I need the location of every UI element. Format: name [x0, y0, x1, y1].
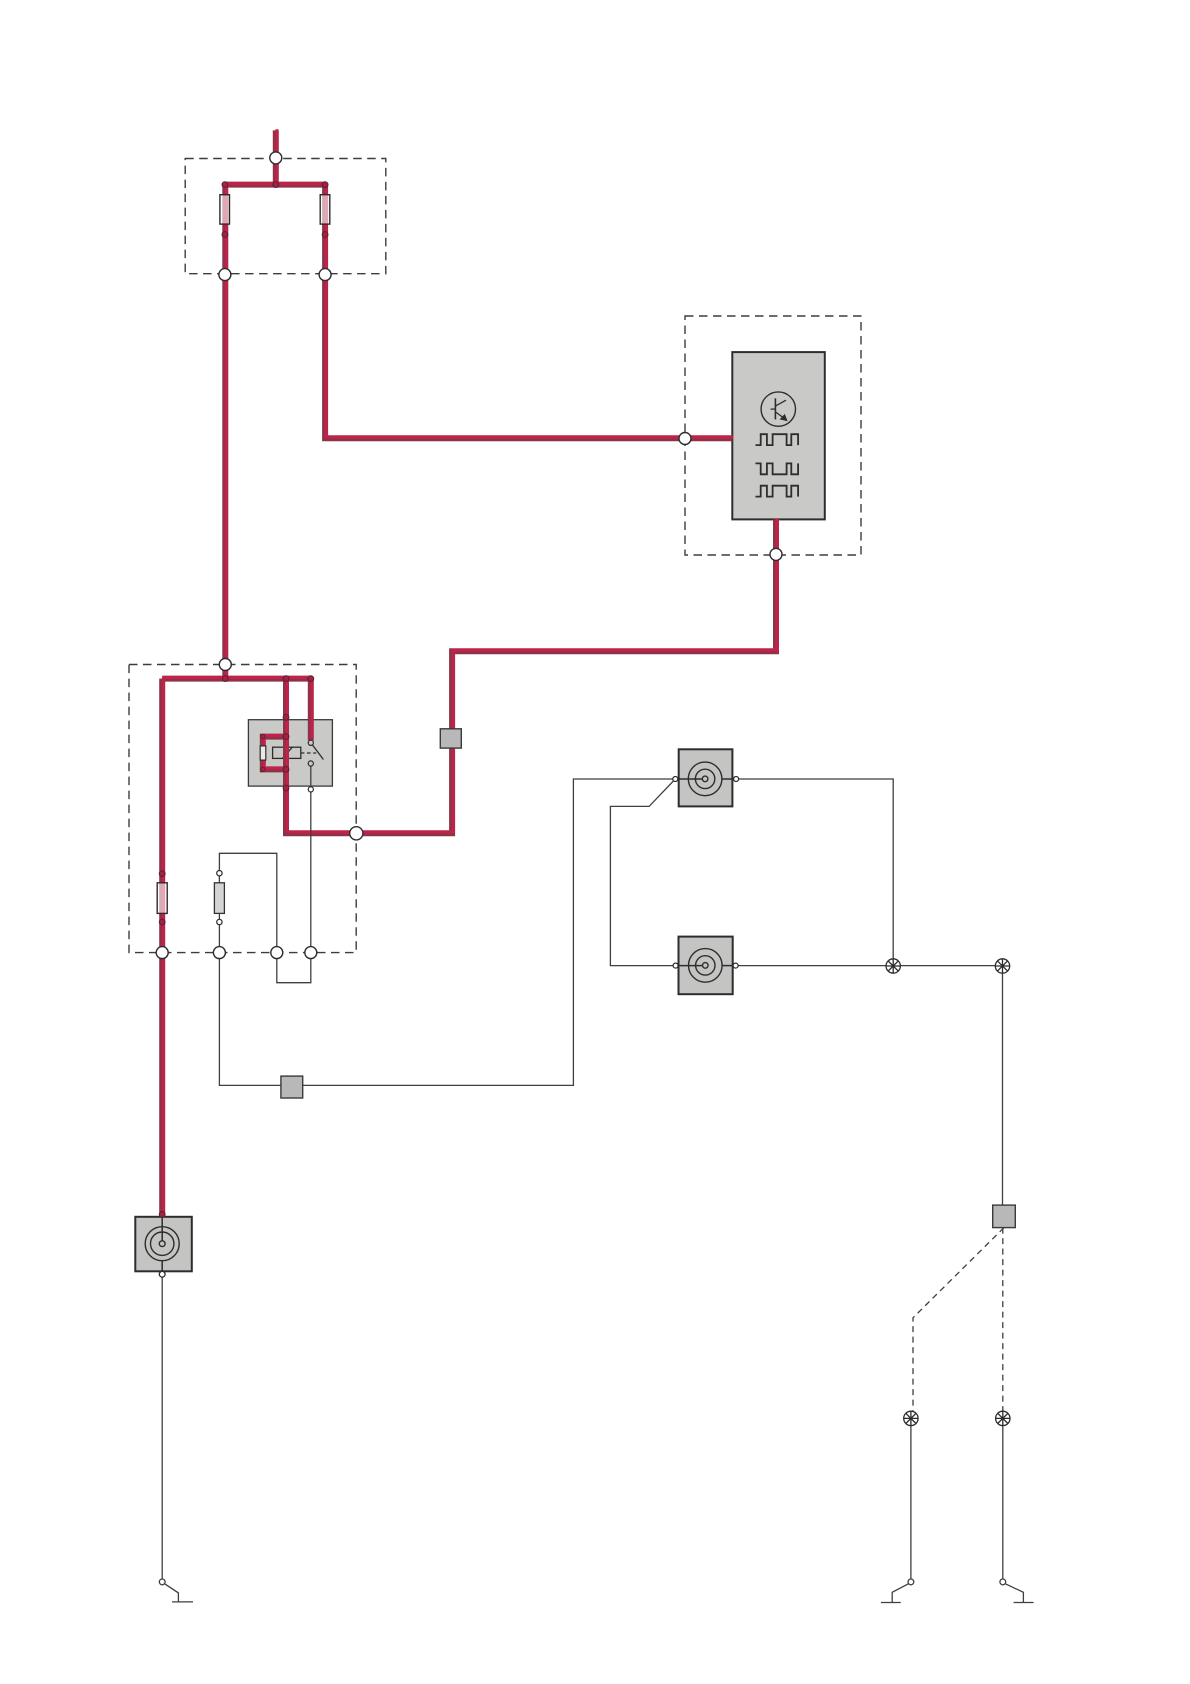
junction dot bus left: [222, 182, 228, 188]
splice S1: [886, 959, 900, 973]
horn H1 body: [679, 749, 733, 806]
connector square A (on red wire): [440, 729, 461, 748]
wire battery feed stub (red): [276, 129, 277, 184]
junction dot coil feed top: [283, 676, 289, 682]
wire horn H3 to ground: [161, 1277, 163, 1579]
junction dot coil loop bottom-left: [261, 767, 266, 772]
horn H3 body (bottom left): [135, 1217, 192, 1272]
wire relay switch output: [310, 766, 312, 953]
terminal relay box pin 1: [156, 947, 168, 959]
fuse F4: [214, 883, 224, 914]
horn H2 body: [679, 937, 733, 995]
junction dot above relay body: [283, 714, 289, 720]
terminal relay box pin 2: [213, 947, 225, 959]
wire control module output to relay coil low side (red): [286, 518, 777, 833]
control module box (dashed) right: [685, 316, 861, 555]
junction dot below fuse F3: [159, 919, 165, 925]
relay K1 coil: [273, 747, 301, 758]
relay K1 output pin circle: [308, 787, 313, 792]
splice S2: [995, 959, 1009, 973]
waveform row 3 in module U1: [756, 486, 799, 497]
terminal relay box supply in: [219, 659, 231, 671]
pin circle below fuse F4: [217, 919, 222, 924]
wire jumper below relay box: [277, 953, 311, 983]
terminal module U1 input: [679, 433, 691, 445]
terminal fuse F2 out: [319, 269, 331, 281]
junction dot above fuse F3: [159, 871, 165, 877]
wire right fuse branch to control module (red): [325, 183, 733, 438]
pin circle above fuse F4: [217, 871, 222, 876]
wire relay coil feed through (red): [286, 677, 287, 833]
wire supply bus inside relay box (red): [162, 677, 312, 678]
relay K1 common contact: [308, 740, 313, 745]
terminal relay box pin 3: [271, 947, 283, 959]
horn H2 right terminal: [733, 963, 738, 968]
fuse F3 (red leg, relay box): [157, 883, 167, 914]
waveform row 2 in module U1: [756, 463, 799, 474]
horn H1 symbol: [675, 762, 736, 796]
horn H2 symbol: [676, 949, 736, 983]
horn H2 left terminal: [673, 963, 678, 968]
relay/junction box (dashed) middle: [129, 665, 356, 953]
junction dot coil loop bottom: [283, 767, 289, 773]
junction dot at horn H3 input: [159, 1212, 165, 1218]
junction dot bus centre: [273, 182, 279, 188]
ground G2 (left, below splice S3): [881, 1579, 914, 1603]
wire left leg to horn H3 (red): [162, 677, 163, 1216]
fuse F1: [220, 195, 230, 224]
horn H1 left terminal: [673, 777, 678, 782]
relay K1 switch blade: [312, 745, 323, 760]
junction dot below relay body: [283, 785, 289, 791]
wire relay coil resistor loop (red): [263, 735, 287, 769]
junction dot switch feed top: [308, 676, 314, 682]
wire fuse F4 output to horn H1: [219, 779, 672, 1085]
junction dot below fuse F2: [322, 232, 328, 238]
junction dot coil loop top-left: [261, 734, 266, 739]
connector square B (horn feed wire): [281, 1076, 303, 1098]
fuse holder box (dashed) top: [185, 159, 386, 274]
terminal module U1 output: [770, 548, 782, 560]
relay K1 switch link (dashed): [301, 752, 316, 754]
wire fuse bus bar (red): [225, 183, 326, 184]
wire connector to right ground splice (dashed): [1002, 1228, 1004, 1412]
wire horn H1 right to splice: [736, 779, 893, 960]
fuse F2: [320, 195, 330, 224]
ground G1 (below horn H3): [159, 1579, 193, 1602]
wire horn H2 right to splices: [736, 966, 1003, 1206]
junction dot below fuse F1: [222, 232, 228, 238]
terminal 30 supply (top box): [270, 152, 282, 164]
wire horn H1 terminal to horn H2: [610, 779, 675, 966]
terminal fuse F1 out: [219, 269, 231, 281]
control module U1 body: [732, 352, 825, 519]
relay K1 output contact: [308, 761, 313, 766]
wire relay switch feed (red): [311, 677, 312, 740]
junction dot relay bus tap: [222, 676, 228, 682]
junction dot bus right: [322, 182, 328, 188]
terminal relay box coil return: [350, 827, 363, 840]
relay K1 body: [248, 720, 332, 786]
connector square C (ground lead): [993, 1205, 1016, 1228]
junction dot coil loop top: [283, 734, 289, 740]
splice S3: [904, 1411, 918, 1425]
wire left splice to ground: [910, 1426, 912, 1579]
transistor symbol in module U1: [761, 392, 795, 426]
resistor R1 (relay coil series): [260, 746, 266, 760]
wire right splice to ground: [1002, 1426, 1004, 1579]
terminal relay box pin 4: [305, 947, 317, 959]
wire left fuse branch down to relay box (red): [225, 183, 226, 678]
wire jumper to fuse F4 branch: [219, 853, 276, 952]
ground G3 (right, below splice S4): [1000, 1579, 1034, 1603]
horn H1 right terminal: [734, 777, 739, 782]
splice S4: [996, 1411, 1010, 1425]
horn H3 output pin circle: [159, 1271, 165, 1277]
waveform row 1 in module U1: [756, 434, 799, 445]
horn H3 symbol: [145, 1217, 179, 1272]
wire connector to left ground splice (dashed): [913, 1228, 1004, 1412]
